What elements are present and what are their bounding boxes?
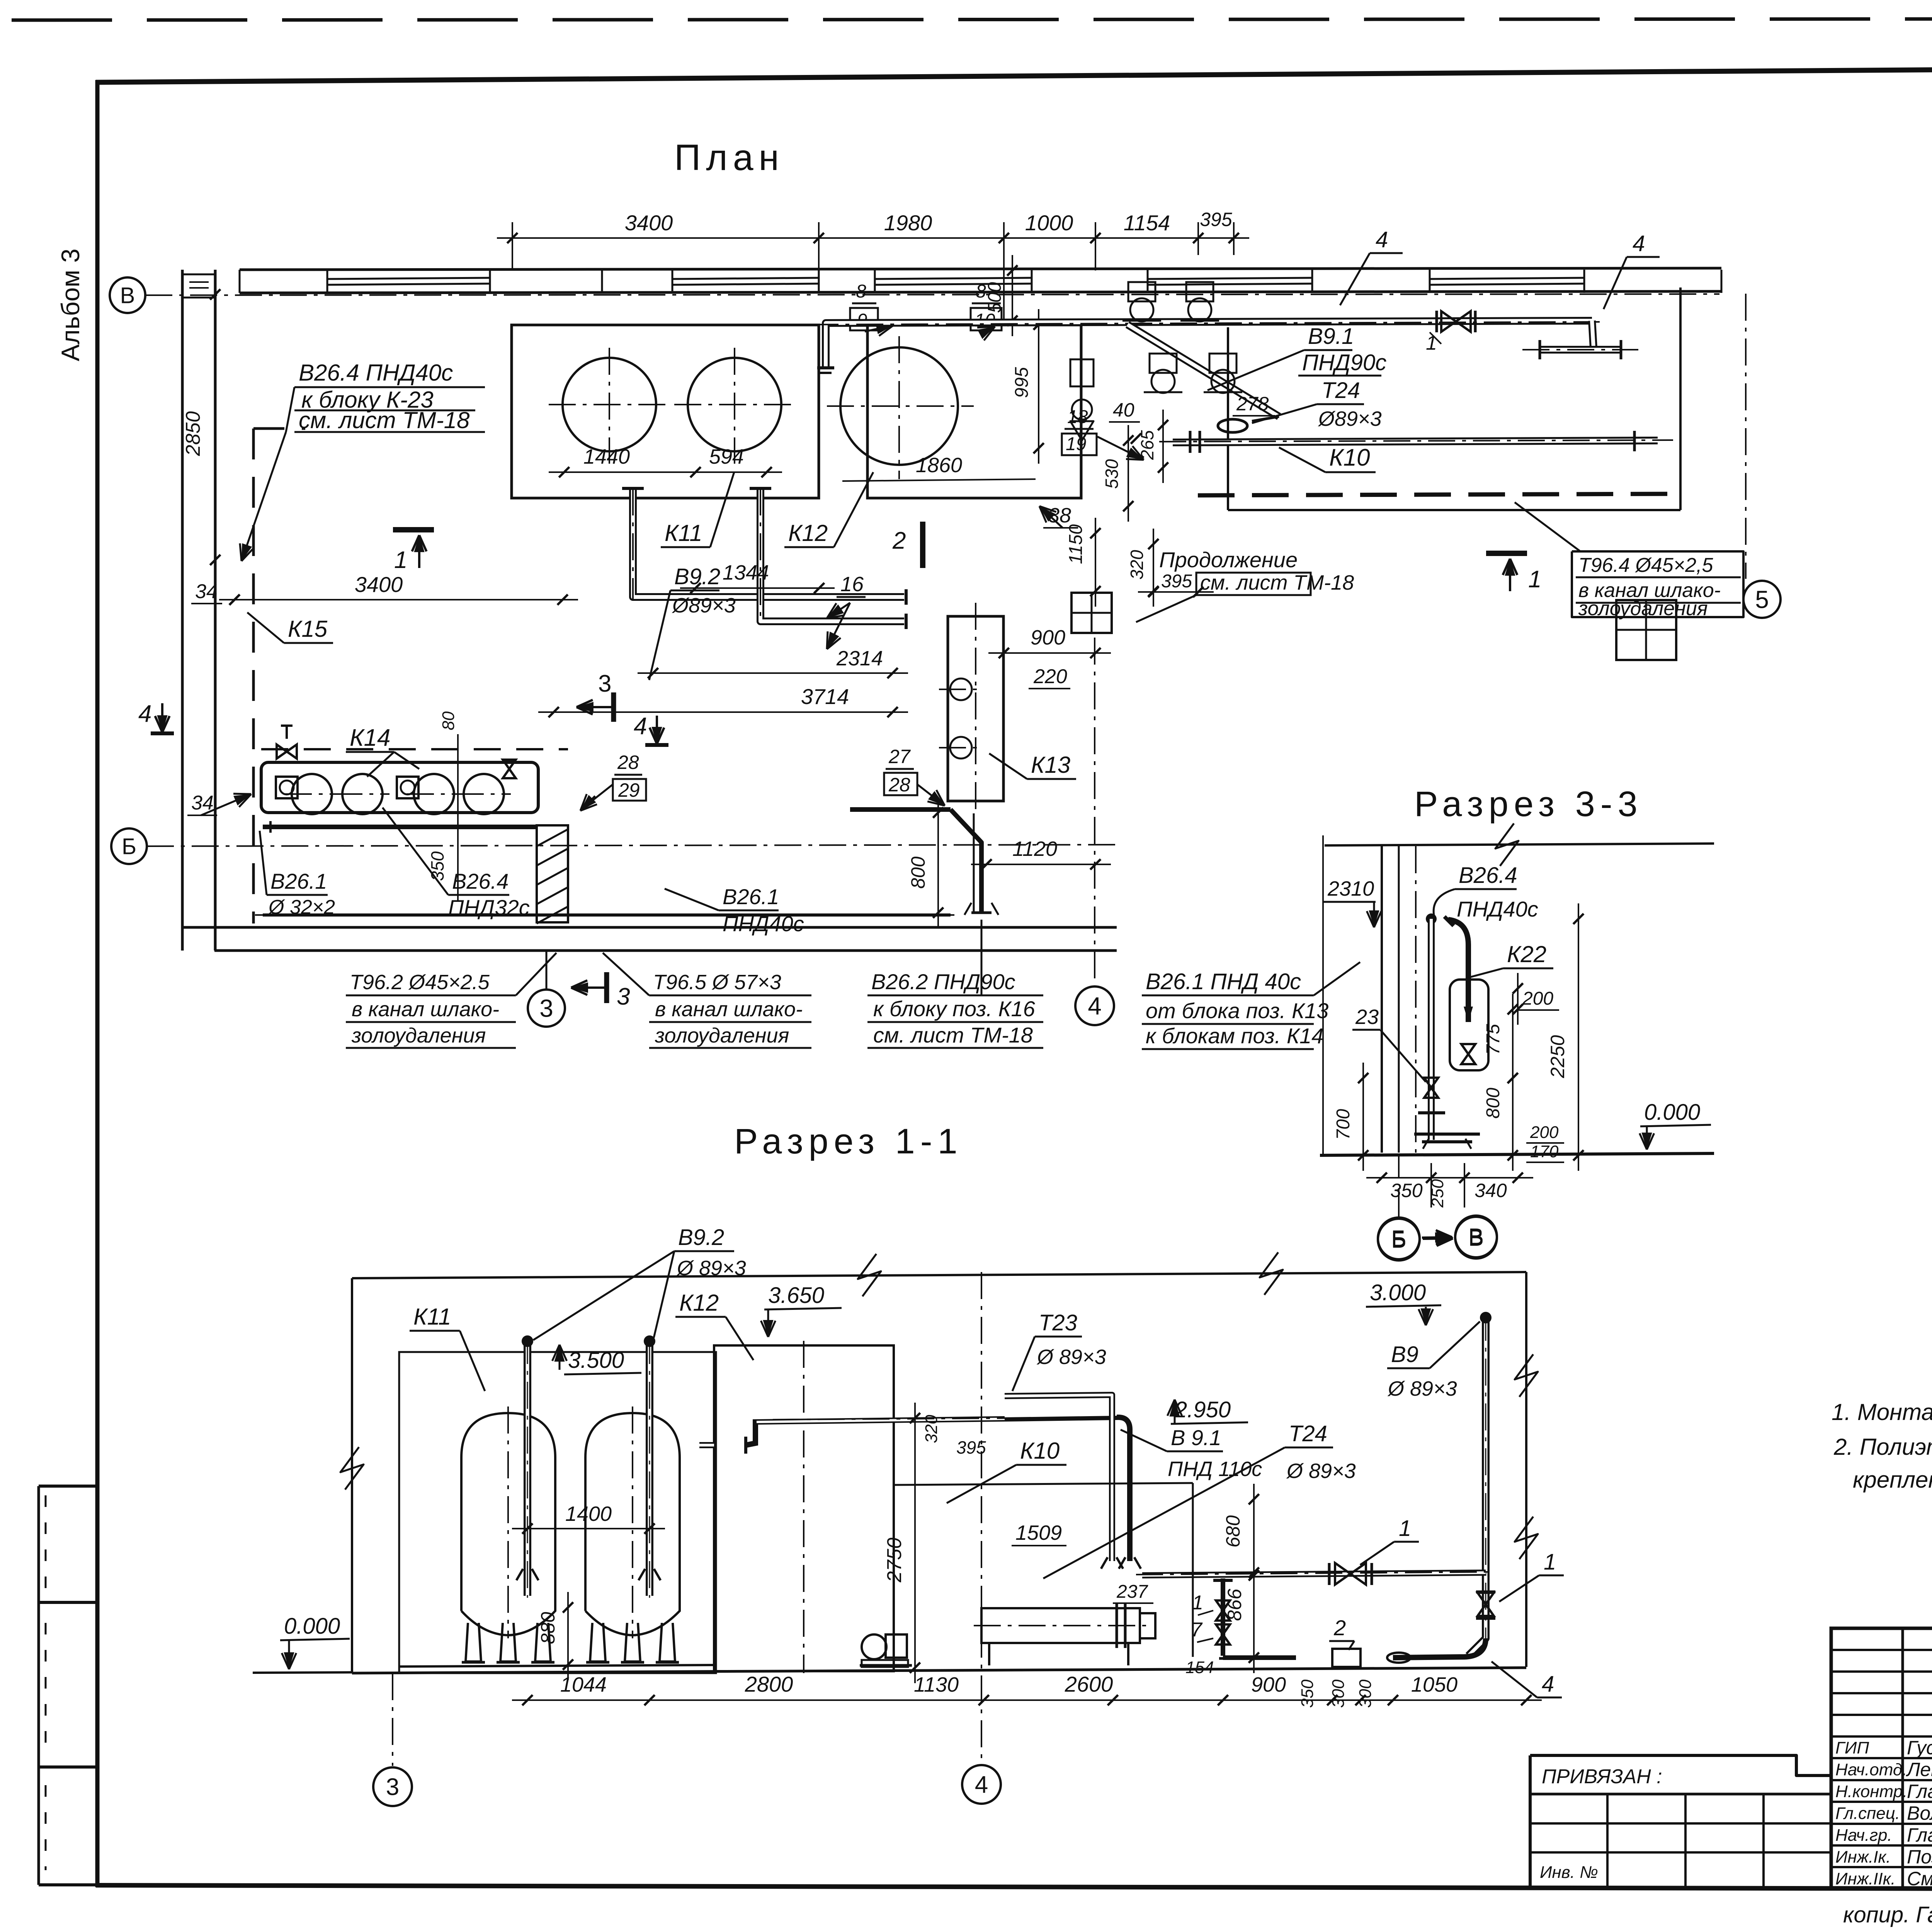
axis 5 line + bubble xyxy=(1745,294,1747,579)
dashed line left room xyxy=(252,429,255,923)
svg-text:1150: 1150 xyxy=(1066,524,1086,564)
svg-text:Разрез 3-3: Разрез 3-3 xyxy=(1414,784,1643,824)
axis B2 bubble left xyxy=(111,828,147,864)
svg-text:1000: 1000 xyxy=(1025,211,1073,235)
svg-text:К14: К14 xyxy=(350,724,391,751)
svg-text:265: 265 xyxy=(1137,430,1157,460)
svg-text:крепление уголков – к обору: крепление уголков – к оборудованию . xyxy=(1853,1467,1932,1493)
s11: dim 1400 xyxy=(512,1528,665,1529)
pumps cluster bottom row xyxy=(1150,354,1177,373)
pump top valves xyxy=(277,745,297,759)
s11: tank 2 xyxy=(585,1413,680,1635)
svg-text:5: 5 xyxy=(1755,585,1769,613)
PLAN: axis B bubble xyxy=(110,277,145,313)
svg-text:копир. Ганкова: копир. Ганкова xyxy=(1843,1902,1932,1927)
svg-text:395: 395 xyxy=(1200,209,1232,230)
svg-text:200: 200 xyxy=(1530,1123,1559,1142)
s11: K10 box xyxy=(894,1483,1193,1485)
svg-text:В9.2: В9.2 xyxy=(678,1225,724,1250)
svg-text:0.000: 0.000 xyxy=(1644,1100,1700,1125)
svg-text:2250: 2250 xyxy=(1547,1035,1568,1078)
svg-text:К22: К22 xyxy=(1507,941,1546,967)
svg-text:Нач.гр.: Нач.гр. xyxy=(1835,1826,1892,1845)
svg-text:27: 27 xyxy=(888,746,911,767)
svg-text:350: 350 xyxy=(1390,1180,1423,1201)
risers K11 K12 pipes xyxy=(633,488,904,597)
s33c: lower fittings xyxy=(1424,1078,1438,1098)
svg-text:План: План xyxy=(674,137,784,178)
svg-text:К13: К13 xyxy=(1031,752,1070,778)
svg-text:ПРИВЯЗАН :: ПРИВЯЗАН : xyxy=(1542,1765,1662,1788)
svg-text:1: 1 xyxy=(1399,1516,1411,1541)
s11: right wall xyxy=(1525,1272,1527,1667)
s11: tank 1 legs xyxy=(466,1623,481,1662)
svg-text:220: 220 xyxy=(1033,665,1067,688)
svg-text:1509: 1509 xyxy=(1015,1521,1062,1544)
svg-text:Волкова: Волкова xyxy=(1907,1803,1932,1824)
svg-text:1120: 1120 xyxy=(1012,837,1057,861)
svg-text:16: 16 xyxy=(840,573,864,596)
svg-text:см. лист ТМ-18: см. лист ТМ-18 xyxy=(299,407,470,433)
V9 right elbow down xyxy=(1592,321,1594,348)
frame left border xyxy=(95,80,100,1887)
top paper dashed line xyxy=(12,19,1932,20)
svg-text:1044: 1044 xyxy=(560,1673,607,1696)
svg-text:23: 23 xyxy=(1355,1005,1379,1029)
s33c: ceiling xyxy=(1325,844,1714,845)
svg-text:28: 28 xyxy=(888,774,910,796)
svg-text:Т96.2 Ø45×2.5: Т96.2 Ø45×2.5 xyxy=(350,971,490,994)
B26.1 long pipe bottom xyxy=(263,913,951,917)
K10 plan room xyxy=(1227,327,1229,510)
svg-text:золоудаления: золоудаления xyxy=(351,1024,486,1047)
svg-text:300: 300 xyxy=(1356,1679,1375,1708)
svg-text:см. лист ТМ-18: см. лист ТМ-18 xyxy=(1200,571,1354,594)
svg-text:170: 170 xyxy=(1530,1142,1559,1161)
svg-text:В9.1: В9.1 xyxy=(1308,324,1354,349)
svg-text:Б: Б xyxy=(122,834,136,859)
pumps cluster top row xyxy=(1128,282,1155,301)
svg-text:к блоку поз. К16: к блоку поз. К16 xyxy=(873,997,1036,1021)
V9 left end arrows xyxy=(817,366,834,369)
svg-text:золоудаления: золоудаления xyxy=(1578,597,1708,620)
axis B line xyxy=(145,294,1719,295)
svg-text:Гладикова: Гладикова xyxy=(1907,1781,1932,1802)
svg-text:4: 4 xyxy=(634,713,647,740)
svg-text:278: 278 xyxy=(1236,393,1269,415)
svg-text:от блока поз. К13: от блока поз. К13 xyxy=(1146,998,1328,1023)
T24 oval fitting xyxy=(1218,419,1247,432)
svg-text:28: 28 xyxy=(617,752,639,773)
s11: bottom right pipe xyxy=(1393,1638,1486,1658)
svg-text:2750: 2750 xyxy=(883,1537,906,1583)
s33c: pipe cluster xyxy=(1426,913,1437,924)
svg-text:2310: 2310 xyxy=(1327,877,1374,900)
svg-text:Ø 89×3: Ø 89×3 xyxy=(1036,1345,1106,1369)
svg-text:В26.1: В26.1 xyxy=(270,869,327,893)
boiler circle 2 xyxy=(688,358,781,451)
s11: pipe K12 to left xyxy=(699,1442,714,1448)
svg-text:320: 320 xyxy=(922,1415,941,1443)
s11: small vertical with valves xyxy=(1221,1578,1225,1656)
svg-text:1: 1 xyxy=(1544,1549,1556,1575)
V9 bottom stub with flanges xyxy=(1540,346,1621,354)
svg-text:Нач.отд.: Нач.отд. xyxy=(1835,1760,1907,1779)
svg-text:2.950: 2.950 xyxy=(1174,1397,1231,1422)
boiler circle 3 xyxy=(840,347,958,465)
svg-text:3.000: 3.000 xyxy=(1370,1280,1426,1305)
svg-text:1050: 1050 xyxy=(1411,1673,1458,1696)
svg-text:Лепендин: Лепендин xyxy=(1906,1759,1932,1781)
s11: pump xyxy=(862,1634,886,1659)
svg-text:29: 29 xyxy=(618,779,640,801)
s33c: wall lines xyxy=(1381,846,1383,1153)
svg-text:700: 700 xyxy=(1333,1109,1354,1140)
svg-text:Т23: Т23 xyxy=(1039,1310,1077,1335)
svg-text:см. лист ТМ-18: см. лист ТМ-18 xyxy=(873,1023,1033,1047)
svg-text:594: 594 xyxy=(709,445,744,468)
title block signature table xyxy=(1831,1628,1932,1889)
svg-text:ГИП: ГИП xyxy=(1835,1738,1869,1757)
svg-text:Т96.5 Ø 57×3: Т96.5 Ø 57×3 xyxy=(653,971,781,994)
svg-text:3: 3 xyxy=(539,994,553,1022)
svg-text:Ø 89×3: Ø 89×3 xyxy=(676,1257,746,1280)
svg-text:1130: 1130 xyxy=(914,1673,959,1696)
s11: risers in tanks xyxy=(524,1344,531,1596)
s11: main low pipe xyxy=(1142,1573,1486,1575)
svg-text:995: 995 xyxy=(1012,367,1032,398)
svg-text:2: 2 xyxy=(1333,1616,1346,1640)
s11: long pipe to T23 elbow xyxy=(1005,1417,1130,1561)
s11: floor xyxy=(352,1668,1526,1673)
svg-text:3.500: 3.500 xyxy=(568,1348,624,1373)
svg-text:Гладикова: Гладикова xyxy=(1907,1824,1932,1846)
s11: heat exchanger xyxy=(981,1608,1140,1643)
svg-text:340: 340 xyxy=(1475,1180,1507,1201)
svg-text:320: 320 xyxy=(1127,550,1147,580)
frame bottom border xyxy=(96,1885,1932,1890)
svg-text:300: 300 xyxy=(1329,1679,1348,1708)
svg-text:3714: 3714 xyxy=(801,684,849,709)
svg-text:4: 4 xyxy=(1633,231,1645,256)
svg-text:В26.1 ПНД 40с: В26.1 ПНД 40с xyxy=(1146,969,1301,994)
svg-text:500: 500 xyxy=(985,282,1005,313)
dim 900 220 xyxy=(988,652,1111,654)
svg-text:Продолжение: Продолжение xyxy=(1159,548,1298,572)
pump block K14 xyxy=(261,762,538,813)
svg-text:золоудаления: золоудаления xyxy=(655,1024,789,1047)
diagonal pipe V9.1 xyxy=(1128,325,1279,417)
svg-text:4: 4 xyxy=(975,1772,988,1798)
svg-text:Поздеева: Поздеева xyxy=(1907,1846,1932,1868)
section mark 1 right (plan) xyxy=(1486,551,1527,556)
axis 4 line + bubble xyxy=(1094,638,1095,986)
s11: K11 room box xyxy=(399,1352,716,1673)
hatched wall pier xyxy=(537,825,568,922)
svg-text:Инж.IIк.: Инж.IIк. xyxy=(1835,1869,1896,1888)
svg-text:Смирнова: Смирнова xyxy=(1907,1868,1932,1889)
plan top dimension line xyxy=(497,237,1249,239)
svg-text:350: 350 xyxy=(427,851,447,881)
dim 1440 594 1860 xyxy=(549,471,782,473)
svg-text:В26.2 ПНД90с: В26.2 ПНД90с xyxy=(871,969,1015,994)
svg-text:1154: 1154 xyxy=(1124,211,1170,235)
svg-text:4: 4 xyxy=(1542,1672,1554,1697)
svg-text:2800: 2800 xyxy=(745,1672,793,1696)
privyazan table xyxy=(1530,1755,1831,1776)
svg-text:8: 8 xyxy=(856,281,866,302)
svg-text:800: 800 xyxy=(1483,1088,1503,1119)
s11: T23 pipe top xyxy=(1005,1395,1112,1561)
s11: bottom run xyxy=(1223,1655,1296,1660)
svg-text:866: 866 xyxy=(1224,1588,1245,1621)
svg-text:530: 530 xyxy=(1102,459,1122,489)
K10 inner pipe xyxy=(1173,440,1658,442)
svg-text:К10: К10 xyxy=(1020,1438,1060,1464)
pipe from K13 down xyxy=(850,807,951,812)
svg-text:в канал шлако-: в канал шлако- xyxy=(352,998,499,1021)
svg-text:900: 900 xyxy=(1031,626,1065,649)
K13 tank xyxy=(948,616,1003,801)
svg-text:80: 80 xyxy=(439,711,458,730)
riser arrows at right end xyxy=(905,589,908,605)
svg-text:В26.4: В26.4 xyxy=(1459,863,1517,888)
svg-text:В26.4: В26.4 xyxy=(452,869,509,893)
boiler circle 1 xyxy=(563,358,656,451)
svg-text:Разрез 1-1: Разрез 1-1 xyxy=(734,1122,963,1161)
svg-text:3: 3 xyxy=(617,983,630,1010)
dim 1120 800 xyxy=(971,864,1111,865)
pipe V9 main horizontal xyxy=(826,321,1592,367)
s11: tank 2 legs xyxy=(590,1623,605,1662)
frame top border xyxy=(96,65,1932,82)
svg-text:К12: К12 xyxy=(679,1290,719,1316)
svg-text:18: 18 xyxy=(1067,407,1088,427)
svg-text:К11: К11 xyxy=(413,1304,451,1330)
svg-text:4: 4 xyxy=(1376,227,1388,252)
svg-text:Т96.4 Ø45×2,5: Т96.4 Ø45×2,5 xyxy=(1578,554,1713,577)
s33c: valve right xyxy=(1461,1044,1475,1064)
svg-text:395: 395 xyxy=(1161,571,1192,592)
dim 2314 3714 xyxy=(638,672,908,674)
svg-text:К12: К12 xyxy=(788,520,828,546)
svg-text:2850: 2850 xyxy=(182,411,204,456)
svg-text:1: 1 xyxy=(1528,566,1541,593)
svg-text:К10: К10 xyxy=(1329,444,1370,471)
svg-text:154: 154 xyxy=(1185,1658,1214,1677)
floor drain square 1 xyxy=(1071,593,1112,633)
svg-text:350: 350 xyxy=(1298,1679,1317,1708)
svg-text:Ø 89×3: Ø 89×3 xyxy=(1286,1459,1356,1483)
svg-text:К15: К15 xyxy=(288,616,328,642)
svg-text:К11: К11 xyxy=(665,520,702,546)
svg-text:237: 237 xyxy=(1116,1582,1148,1602)
plan right dashed boundary xyxy=(1198,494,1680,495)
s33c: ground xyxy=(1320,1153,1714,1155)
svg-text:1: 1 xyxy=(394,547,407,573)
svg-text:В 9.1: В 9.1 xyxy=(1171,1425,1221,1450)
s11: ceiling xyxy=(352,1272,1526,1278)
svg-text:Инж.Iк.: Инж.Iк. xyxy=(1835,1848,1891,1867)
svg-text:680: 680 xyxy=(1222,1515,1244,1548)
svg-text:ПНД90с: ПНД90с xyxy=(1302,350,1386,375)
s33c: K22 vessel xyxy=(1450,980,1488,1070)
s11: bottom dim line xyxy=(512,1699,1542,1701)
s33c: base xyxy=(1414,1133,1480,1136)
s11: K12 tank xyxy=(714,1345,894,1671)
plan left wall xyxy=(181,270,184,951)
s11: tank 1 xyxy=(461,1413,555,1635)
svg-text:Б: Б xyxy=(1391,1227,1406,1253)
dim 3400 inner xyxy=(219,599,578,600)
svg-text:Ø89×3: Ø89×3 xyxy=(1318,407,1382,430)
s11: axis bubbles 3 4 xyxy=(373,1767,412,1806)
svg-text:200: 200 xyxy=(1522,988,1553,1009)
s11: left wall xyxy=(351,1278,353,1673)
svg-text:775: 775 xyxy=(1483,1024,1503,1055)
svg-text:3400: 3400 xyxy=(355,572,403,597)
svg-text:Т24: Т24 xyxy=(1289,1421,1327,1446)
svg-text:Ø 89×3: Ø 89×3 xyxy=(1387,1377,1457,1400)
svg-text:4: 4 xyxy=(1088,992,1102,1020)
plan top wall band xyxy=(240,268,1721,270)
equipment block K11-K12 rect xyxy=(512,325,819,498)
axis 3 bubble plan bottom xyxy=(528,990,565,1027)
svg-text:в канал шлако-: в канал шлако- xyxy=(655,998,803,1021)
svg-text:1440: 1440 xyxy=(583,445,630,468)
lower-left pipe along pumps xyxy=(263,825,537,829)
s11: axis Б В bubbles above xyxy=(1378,1219,1420,1260)
plan bottom-left wall band xyxy=(182,926,1117,929)
svg-text:Инв. №: Инв. № xyxy=(1540,1863,1598,1882)
dim 1344 xyxy=(680,587,835,589)
svg-text:Гусева: Гусева xyxy=(1907,1737,1932,1759)
section mark 1 top (plan) xyxy=(393,527,434,532)
s33c: bottom dims xyxy=(1366,1177,1533,1179)
s11: level 3.500 xyxy=(559,1345,561,1370)
svg-text:ПНД40с: ПНД40с xyxy=(1457,897,1538,921)
section mark 2 top xyxy=(920,522,925,568)
svg-text:880: 880 xyxy=(537,1612,559,1644)
V9 valve xyxy=(1441,311,1471,332)
svg-text:3400: 3400 xyxy=(625,211,673,235)
svg-text:ПНД 110с: ПНД 110с xyxy=(1168,1458,1262,1481)
svg-text:к блокам поз. К14: к блокам поз. К14 xyxy=(1146,1024,1323,1048)
svg-text:1: 1 xyxy=(1426,332,1437,354)
s33c: axis bubbles xyxy=(1378,1218,1420,1259)
svg-text:1. Монтажную схему трубопров: 1. Монтажную схему трубопроводов см. лис… xyxy=(1832,1399,1932,1425)
svg-text:ПНД40с: ПНД40с xyxy=(723,912,804,936)
small equipment near circle3 xyxy=(1070,359,1094,386)
left margin inventory boxes xyxy=(39,1485,97,1488)
svg-text:1860: 1860 xyxy=(916,454,962,477)
svg-text:В9: В9 xyxy=(1391,1342,1418,1367)
svg-text:Т24: Т24 xyxy=(1321,378,1360,403)
svg-text:2600: 2600 xyxy=(1065,1672,1113,1696)
pump inlet fittings xyxy=(276,777,298,798)
svg-text:Гл.спец.: Гл.спец. xyxy=(1835,1804,1900,1823)
svg-text:1980: 1980 xyxy=(884,211,932,235)
svg-text:900: 900 xyxy=(1251,1673,1286,1696)
svg-text:3.650: 3.650 xyxy=(768,1283,824,1308)
svg-text:3: 3 xyxy=(598,670,611,697)
svg-text:В: В xyxy=(120,283,135,308)
svg-text:2. Полиэтиленовые трубы прол: 2. Полиэтиленовые трубы проложить в угол… xyxy=(1833,1434,1932,1460)
svg-text:1400: 1400 xyxy=(565,1502,612,1526)
equipment block 2 rect xyxy=(867,325,1081,498)
svg-text:В26.4 ПНД40с: В26.4 ПНД40с xyxy=(299,360,453,386)
svg-text:4: 4 xyxy=(138,701,151,727)
T96.4 label box xyxy=(1572,551,1743,617)
svg-text:34: 34 xyxy=(195,580,218,603)
svg-text:0.000: 0.000 xyxy=(284,1614,340,1639)
svg-text:40: 40 xyxy=(1113,399,1134,421)
svg-text:Ø89×3: Ø89×3 xyxy=(672,594,736,617)
floor drain square 2 xyxy=(1616,600,1676,660)
svg-text:Н.контр.: Н.контр. xyxy=(1835,1782,1907,1801)
svg-text:Альбом 3: Альбом 3 xyxy=(56,248,85,361)
svg-text:2314: 2314 xyxy=(836,647,883,670)
svg-text:3: 3 xyxy=(386,1774,399,1801)
svg-text:2: 2 xyxy=(892,527,906,554)
s11: B9 vertical pipe right xyxy=(1468,1320,1486,1656)
svg-text:В: В xyxy=(1468,1225,1484,1251)
svg-text:800: 800 xyxy=(907,856,929,889)
svg-text:В26.1: В26.1 xyxy=(723,884,779,909)
svg-text:1344: 1344 xyxy=(723,561,769,584)
